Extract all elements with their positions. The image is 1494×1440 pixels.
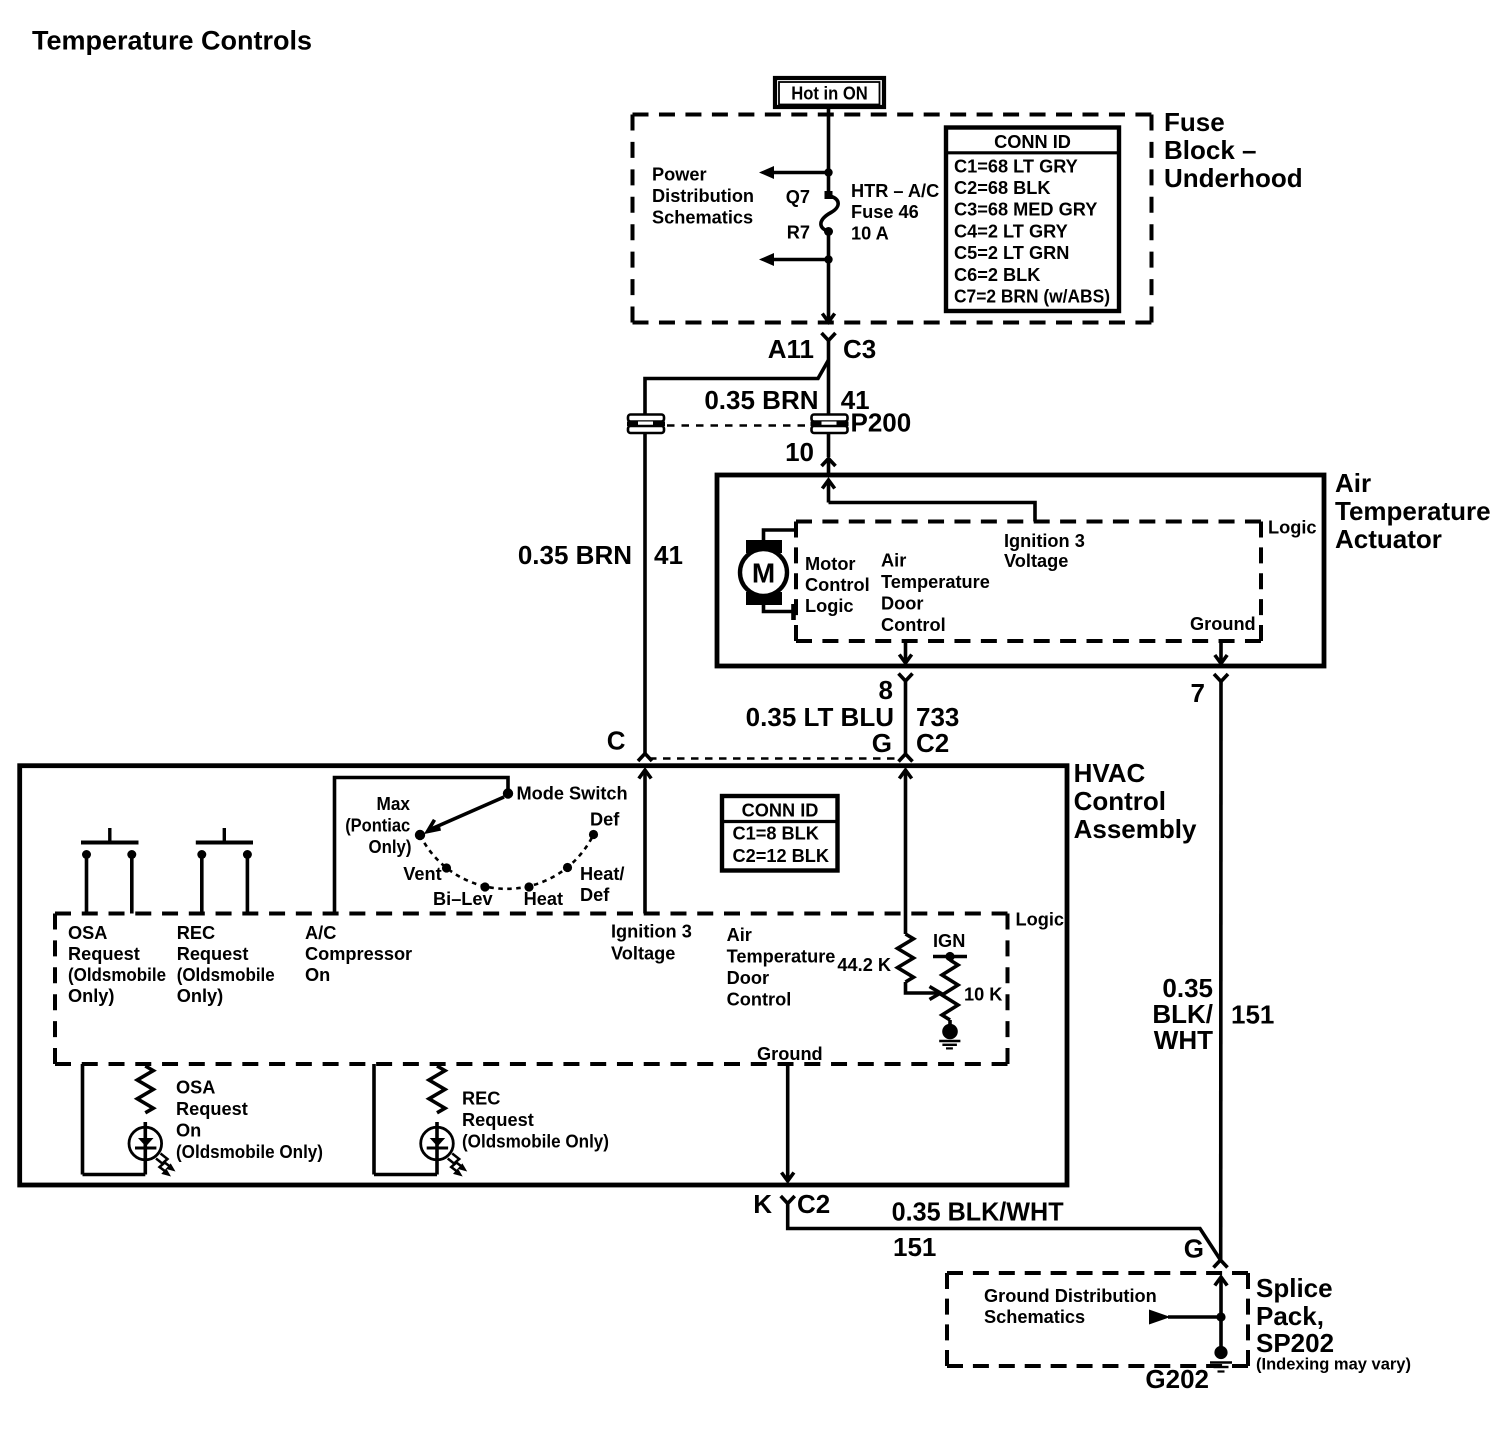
resistor 10 K (potentiometer) xyxy=(942,960,1002,1020)
mode switch wiper arrow xyxy=(428,797,505,832)
svg-text:Request: Request xyxy=(68,944,140,964)
exit arrow at fuse block bottom xyxy=(822,314,834,323)
svg-text:Q7: Q7 xyxy=(786,187,810,207)
svg-text:Control: Control xyxy=(1074,786,1166,816)
svg-text:Control: Control xyxy=(727,990,792,1010)
svg-text:C5=2 LT GRN: C5=2 LT GRN xyxy=(954,243,1069,263)
pin 7 connector Y xyxy=(1214,674,1228,682)
svg-text:Only): Only) xyxy=(68,986,114,1006)
wire from fuse to exit arrow xyxy=(827,260,831,322)
OSA request LED circuit xyxy=(83,1064,176,1177)
A/C compressor wire to mode switch xyxy=(335,778,509,914)
svg-text:Logic: Logic xyxy=(805,596,854,616)
svg-text:Ignition 3: Ignition 3 xyxy=(1004,531,1085,551)
svg-text:(Oldsmobile Only): (Oldsmobile Only) xyxy=(176,1142,323,1162)
svg-text:Heat: Heat xyxy=(524,889,563,909)
svg-text:Ground: Ground xyxy=(757,1044,823,1064)
wire K to splice pack xyxy=(788,1204,1221,1261)
svg-text:OSA: OSA xyxy=(68,923,107,943)
connector pin A11/C3 (female Y) xyxy=(822,333,836,341)
svg-text:Def: Def xyxy=(590,810,620,830)
mode position dots xyxy=(415,830,425,840)
wire below A11/C3 xyxy=(827,341,831,415)
svg-text:Door: Door xyxy=(881,594,923,614)
svg-text:Distribution: Distribution xyxy=(652,186,754,206)
ground distribution arrow xyxy=(1149,1310,1221,1325)
actuator pin 8 exit arrow xyxy=(899,641,911,663)
entry arrow inside splice pack xyxy=(1215,1277,1227,1317)
svg-text:Actuator: Actuator xyxy=(1335,524,1442,554)
svg-text:REC: REC xyxy=(462,1089,500,1109)
svg-text:Request: Request xyxy=(462,1110,534,1130)
wire 733 from pin 8 down to HVAC xyxy=(904,682,908,754)
svg-text:C3=68 MED GRY: C3=68 MED GRY xyxy=(954,200,1097,220)
svg-text:WHT: WHT xyxy=(1154,1025,1213,1055)
svg-text:(Oldsmobile: (Oldsmobile xyxy=(177,965,275,985)
svg-text:C2: C2 xyxy=(916,728,949,758)
REC request LED circuit xyxy=(374,1064,467,1177)
svg-text:Temperature: Temperature xyxy=(881,572,990,592)
svg-text:151: 151 xyxy=(1231,1000,1274,1030)
svg-text:Temperature: Temperature xyxy=(727,947,836,967)
svg-text:On: On xyxy=(176,1121,201,1141)
resistor 44.2 K xyxy=(837,934,913,982)
wire to G202 xyxy=(1219,1317,1223,1348)
left feed arrow upper xyxy=(759,166,833,179)
svg-text:REC: REC xyxy=(177,923,215,943)
CONN ID table (fuse block) xyxy=(946,128,1119,312)
svg-text:Request: Request xyxy=(177,944,249,964)
svg-text:Logic: Logic xyxy=(1268,518,1317,538)
svg-text:C2=12 BLK: C2=12 BLK xyxy=(733,846,830,866)
svg-text:K: K xyxy=(753,1189,772,1219)
svg-text:(Pontiac: (Pontiac xyxy=(345,816,410,836)
svg-text:Ground: Ground xyxy=(1190,614,1256,634)
pin K connector Y below HVAC xyxy=(781,1196,795,1204)
wire 151 from pin 7 down to splice pack xyxy=(1219,682,1223,1260)
svg-text:CONN ID: CONN ID xyxy=(742,801,819,821)
svg-text:C1=8 BLK: C1=8 BLK xyxy=(733,824,819,844)
HVAC box xyxy=(20,766,1067,1185)
wiper arrow to 10 K xyxy=(906,982,941,1000)
actuator pin 7 exit arrow (ground) xyxy=(1215,641,1227,664)
pin 8 connector Y xyxy=(899,674,913,682)
wire 41 from P200 down to HVAC C pin xyxy=(643,433,647,753)
svg-text:C2: C2 xyxy=(797,1189,830,1219)
mode positions dashed arc xyxy=(420,835,594,889)
battery feed box "Hot in ON" xyxy=(775,78,884,107)
ignition 3 voltage entry arrow (C pin) xyxy=(639,770,651,914)
svg-text:C1=68 LT GRY: C1=68 LT GRY xyxy=(954,156,1078,176)
svg-text:10 A: 10 A xyxy=(851,224,889,244)
dashed pass-through line P200 xyxy=(667,424,809,426)
svg-text:IGN: IGN xyxy=(933,931,965,951)
svg-text:G: G xyxy=(1184,1234,1204,1264)
svg-text:(Oldsmobile: (Oldsmobile xyxy=(68,965,166,985)
svg-text:8: 8 xyxy=(879,675,893,705)
splice pack dashed box xyxy=(947,1271,1248,1275)
svg-text:C7=2 BRN (w/ABS): C7=2 BRN (w/ABS) xyxy=(954,287,1110,307)
svg-text:Pack,: Pack, xyxy=(1256,1301,1324,1331)
svg-text:41: 41 xyxy=(654,540,683,570)
fuse F46 symbol xyxy=(821,173,838,260)
dashed connector line C to G xyxy=(649,757,899,759)
svg-text:C2=68 BLK: C2=68 BLK xyxy=(954,178,1051,198)
svg-text:Hot in ON: Hot in ON xyxy=(791,84,868,104)
svg-text:Schematics: Schematics xyxy=(652,208,753,228)
grommet P200 right half xyxy=(811,415,849,434)
switch SW-REC (pushbutton) xyxy=(196,828,253,914)
svg-text:(Indexing may vary): (Indexing may vary) xyxy=(1256,1356,1411,1374)
svg-text:Ignition 3: Ignition 3 xyxy=(611,922,692,942)
svg-text:Only): Only) xyxy=(177,986,223,1006)
svg-text:Only): Only) xyxy=(369,837,412,857)
internal ground below 10 K xyxy=(939,1020,960,1048)
svg-text:HVAC: HVAC xyxy=(1074,758,1146,788)
svg-text:Door: Door xyxy=(727,968,769,988)
svg-text:Block –: Block – xyxy=(1164,135,1257,165)
chevron entering HVAC at G xyxy=(899,754,913,762)
svg-text:0.35 BLK/WHT: 0.35 BLK/WHT xyxy=(892,1197,1064,1227)
svg-text:10: 10 xyxy=(785,437,814,467)
svg-text:Motor: Motor xyxy=(805,554,856,574)
svg-text:Voltage: Voltage xyxy=(1004,551,1068,571)
HVAC logic dashed box xyxy=(55,912,1008,916)
CONN ID table (HVAC) xyxy=(722,796,838,871)
motor M1 xyxy=(740,522,796,620)
actuator logic dashed box xyxy=(796,520,1261,524)
svg-text:Air: Air xyxy=(1335,468,1371,498)
svg-text:Request: Request xyxy=(176,1099,248,1119)
chevron entering HVAC at C xyxy=(638,754,652,762)
switch SW-OSA (pushbutton) xyxy=(81,828,139,914)
svg-text:Bi–Lev: Bi–Lev xyxy=(433,889,494,909)
svg-text:On: On xyxy=(305,965,330,985)
svg-text:Max: Max xyxy=(377,794,411,814)
svg-text:0.35 BRN: 0.35 BRN xyxy=(704,385,818,415)
actuator box xyxy=(717,475,1324,666)
svg-text:Air: Air xyxy=(881,551,906,571)
svg-text:C: C xyxy=(607,726,626,756)
svg-text:Temperature: Temperature xyxy=(1335,496,1491,526)
svg-text:R7: R7 xyxy=(787,223,810,243)
svg-text:A11: A11 xyxy=(768,334,814,364)
chevron entering splice pack at G xyxy=(1214,1260,1228,1268)
svg-text:44.2 K: 44.2 K xyxy=(837,955,891,975)
svg-text:10 K: 10 K xyxy=(964,985,1002,1005)
junction dot SP202 xyxy=(1216,1312,1225,1321)
svg-text:Control: Control xyxy=(805,575,870,595)
svg-text:G202: G202 xyxy=(1145,1364,1209,1394)
mode switch common dot xyxy=(503,788,513,798)
svg-text:HTR – A/C: HTR – A/C xyxy=(851,181,939,201)
svg-text:Temperature Controls: Temperature Controls xyxy=(32,26,312,56)
branch wire to left (0.35 BRN 41) xyxy=(645,360,829,415)
svg-text:151: 151 xyxy=(893,1232,936,1262)
svg-text:C3: C3 xyxy=(843,334,876,364)
male connector chevron entering actuator xyxy=(822,459,836,467)
ground G202 xyxy=(1210,1346,1232,1372)
fuse block dashed box xyxy=(633,113,1152,117)
svg-text:Ground Distribution: Ground Distribution xyxy=(984,1286,1157,1306)
wire from Hot in ON into fuse block xyxy=(827,107,831,172)
svg-text:Def: Def xyxy=(580,885,610,905)
svg-text:Control: Control xyxy=(881,615,946,635)
svg-text:M: M xyxy=(752,558,775,589)
air temp door control entry arrow (G pin) xyxy=(899,770,911,934)
svg-text:Power: Power xyxy=(652,165,707,185)
svg-text:Assembly: Assembly xyxy=(1074,814,1197,844)
svg-text:C6=2 BLK: C6=2 BLK xyxy=(954,265,1040,285)
svg-text:Logic: Logic xyxy=(1016,910,1065,930)
svg-text:Underhood: Underhood xyxy=(1164,163,1303,193)
svg-text:Heat/: Heat/ xyxy=(580,864,624,884)
svg-text:Mode Switch: Mode Switch xyxy=(517,784,628,804)
svg-text:Air: Air xyxy=(727,925,752,945)
pin 10 wire into actuator xyxy=(827,433,831,457)
svg-text:C4=2 LT GRY: C4=2 LT GRY xyxy=(954,221,1068,241)
svg-text:G: G xyxy=(872,728,892,758)
grommet P200 left half xyxy=(627,415,665,434)
svg-text:OSA: OSA xyxy=(176,1078,215,1098)
svg-text:7: 7 xyxy=(1191,678,1205,708)
IGN terminal xyxy=(933,931,967,961)
svg-text:Fuse: Fuse xyxy=(1164,107,1225,137)
svg-text:0.35 BRN: 0.35 BRN xyxy=(518,540,632,570)
svg-text:Voltage: Voltage xyxy=(611,944,675,964)
entry arrow (ignition feed) inside actuator xyxy=(822,480,834,503)
svg-text:Compressor: Compressor xyxy=(305,944,412,964)
svg-text:CONN ID: CONN ID xyxy=(994,132,1071,152)
svg-text:Splice: Splice xyxy=(1256,1273,1333,1303)
left feed arrow lower xyxy=(759,253,833,266)
svg-text:Fuse 46: Fuse 46 xyxy=(851,202,919,222)
svg-text:P200: P200 xyxy=(851,408,912,438)
svg-text:SP202: SP202 xyxy=(1256,1328,1334,1358)
svg-text:A/C: A/C xyxy=(305,923,336,943)
svg-text:(Oldsmobile Only): (Oldsmobile Only) xyxy=(462,1132,609,1152)
svg-text:Vent: Vent xyxy=(403,864,441,884)
svg-text:Schematics: Schematics xyxy=(984,1307,1085,1327)
wire to logic box (ignition 3 voltage) xyxy=(829,503,1036,522)
ground wire K pin xyxy=(782,1064,794,1181)
